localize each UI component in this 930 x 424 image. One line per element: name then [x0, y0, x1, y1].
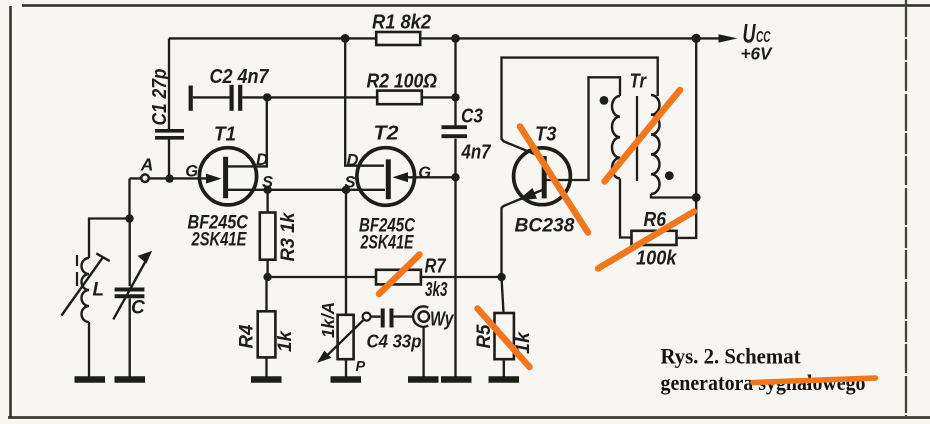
svg-text:R1 8k2: R1 8k2 — [372, 12, 431, 34]
node Wy output terminal — [413, 306, 429, 326]
border top — [22, 4, 930, 7]
wire top rail right segment to Ucc arrow — [420, 37, 722, 39]
wire T3 emitter lead — [502, 190, 544, 278]
svg-text:C1 27p: C1 27p — [149, 69, 171, 126]
wire T3 base lead — [546, 77, 620, 180]
svg-text:3k3: 3k3 — [425, 279, 448, 301]
svg-text:T1: T1 — [214, 123, 236, 146]
transformer Tr secondary winding — [651, 95, 660, 194]
svg-text:R3 1k: R3 1k — [278, 211, 299, 261]
wire node A row — [130, 177, 211, 179]
svg-text:P: P — [356, 359, 366, 375]
transistor T2 gate arrow — [393, 172, 409, 182]
resistor R6 — [632, 231, 677, 245]
inductor L — [62, 253, 110, 377]
node potentiometer wiper terminal — [363, 313, 371, 321]
wire primary bottom to R6 — [620, 178, 632, 237]
svg-text:C2 4n7: C2 4n7 — [210, 66, 270, 88]
wire T2 drain riser — [345, 38, 384, 165]
transistor T2 channel bar — [386, 159, 391, 199]
svg-text:2SK41E: 2SK41E — [360, 232, 414, 254]
svg-text:100k: 100k — [636, 248, 677, 270]
node source row / pot riser junction — [342, 186, 350, 194]
svg-text:C: C — [131, 298, 145, 319]
orange stroke across R5 — [478, 309, 530, 368]
transformer Tr primary winding — [612, 96, 620, 178]
svg-text:2SK41E: 2SK41E — [191, 229, 248, 251]
node top rail / R1 left junction — [341, 34, 350, 43]
node top rail / transformer rail junction — [692, 34, 701, 43]
node T1 source junction — [263, 186, 271, 194]
variable capacitor C — [113, 251, 152, 377]
wire R6 right lead up to rail — [677, 198, 697, 238]
ground under L — [75, 376, 106, 383]
orange strikethrough on sygnalowego — [753, 378, 876, 383]
svg-text:R2 100Ω: R2 100Ω — [367, 71, 438, 93]
capacitor C3 — [442, 127, 468, 136]
svg-text:G: G — [418, 164, 431, 182]
wire top rail left segment — [169, 37, 376, 39]
node C2 / T1 drain junction — [263, 93, 271, 101]
transformer secondary phase dot — [665, 171, 674, 180]
transistor T1 channel bar — [223, 157, 228, 198]
wire Wy down to ground — [422, 327, 424, 378]
ground under potentiometer — [331, 376, 362, 383]
transistor T2 body — [357, 148, 415, 206]
svg-text:D: D — [347, 152, 359, 170]
capacitor C2 — [191, 85, 378, 111]
svg-text:1k: 1k — [275, 330, 296, 352]
svg-text:C4 33p: C4 33p — [367, 331, 422, 352]
svg-text:G: G — [185, 162, 198, 180]
svg-text:4n7: 4n7 — [461, 142, 492, 164]
capacitor C1 — [155, 38, 184, 178]
svg-text:T3: T3 — [535, 123, 557, 146]
ground under R5 — [489, 376, 520, 383]
transistor T1 gate arrow — [206, 174, 222, 184]
transformer core — [636, 96, 638, 181]
node secondary / R6 / rail junction — [692, 193, 701, 202]
wire Ucc rail right vertical — [695, 38, 697, 197]
wire T3 collector lead — [502, 58, 658, 158]
potentiometer 1k/A — [317, 190, 363, 377]
ground under C3 rail — [441, 376, 472, 383]
svg-text:S: S — [345, 173, 356, 191]
transistor T3 emitter arrow — [518, 188, 538, 201]
svg-text:R4: R4 — [237, 324, 258, 348]
wire R2 right lead — [422, 96, 456, 98]
border left — [9, 6, 12, 417]
svg-text:Tr: Tr — [630, 71, 648, 93]
border right — [905, 0, 907, 416]
wire branch to C — [129, 219, 131, 287]
orange stroke across transformer — [605, 90, 681, 182]
capacitor C4 — [371, 309, 414, 328]
svg-text:BC238: BC238 — [515, 215, 575, 237]
svg-text:R7: R7 — [425, 256, 447, 278]
resistor R5 — [495, 277, 514, 377]
transistor T3 body — [514, 148, 571, 205]
Ucc supply arrow — [719, 34, 738, 42]
ground under C — [115, 376, 146, 383]
wire T1 drain lead — [227, 97, 267, 166]
svg-text:1k/A: 1k/A — [318, 302, 338, 338]
wire R7 row — [268, 276, 502, 278]
svg-text:L: L — [93, 280, 105, 301]
resistor R1 — [376, 32, 420, 45]
transistor T1 body — [199, 148, 256, 205]
node R2 / C3 rail junction — [451, 93, 459, 101]
svg-text:Wy: Wy — [430, 309, 454, 331]
border bottom — [8, 416, 930, 419]
wire C3 rail lower down to ground — [454, 139, 456, 377]
node C3 rail / T2 gate junction — [451, 173, 459, 181]
svg-text:A: A — [140, 155, 154, 175]
svg-text:T2: T2 — [374, 122, 400, 145]
ground under Wy — [408, 376, 439, 383]
orange stroke across R6 — [598, 212, 694, 269]
orange stroke across T3 — [520, 127, 588, 233]
resistor R2 — [377, 91, 422, 105]
node A terminal circle — [141, 174, 149, 182]
node R3 bottom / R7 row left junction — [263, 273, 271, 281]
node C1 / A-row junction — [165, 174, 173, 182]
transistor T3 base bar — [542, 156, 547, 198]
node top rail / C3 branch junction — [451, 34, 460, 43]
node R7 row right / T3 emitter junction — [497, 273, 505, 281]
resistor R4 — [258, 277, 276, 377]
orange stroke across R7 — [379, 255, 420, 295]
transformer primary phase dot — [600, 96, 609, 105]
ground under R4 — [251, 376, 282, 383]
svg-text:Rys. 2. Schemat: Rys. 2. Schemat — [661, 344, 801, 369]
resistor R7 — [376, 270, 421, 285]
wire T2 gate lead — [404, 176, 456, 178]
wire C3 rail upper — [454, 38, 456, 126]
svg-text:S: S — [262, 173, 273, 191]
wire branch to L — [89, 219, 130, 259]
wire secondary bottom lead — [651, 194, 696, 198]
svg-text:+6V: +6V — [741, 44, 773, 64]
node LC branch junction — [125, 214, 133, 222]
resistor R3 — [260, 190, 276, 277]
wire T1 source lead / source row to T2 — [227, 189, 385, 191]
svg-text:D: D — [256, 151, 268, 169]
wire A down to LC tank — [128, 179, 130, 219]
svg-text:C3: C3 — [461, 106, 483, 128]
